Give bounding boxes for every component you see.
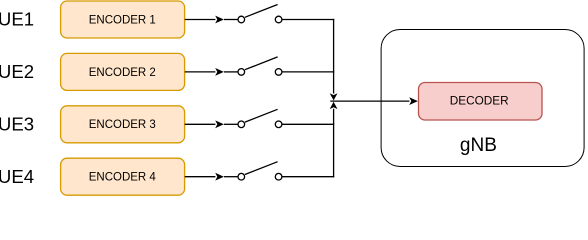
encoder block ENCODER 3 <box>61 106 185 143</box>
svg-text:UE4: UE4 <box>0 166 34 187</box>
svg-text:ENCODER 3: ENCODER 3 <box>89 119 156 131</box>
wire switch S4 to bus <box>282 176 334 178</box>
switch S4 <box>224 162 282 180</box>
gNB enclosure box <box>381 30 584 167</box>
arrowhead bus bottom at junction <box>330 102 338 109</box>
wire switch S1 to bus <box>282 19 334 21</box>
arrowhead encoder1 edge <box>215 16 224 24</box>
bus vertical wire top (S1/S2 to junction) <box>333 19 335 94</box>
arrowhead encoder4 edge <box>215 173 224 181</box>
switch S2 <box>224 57 282 75</box>
arrowhead encoder2 edge <box>215 68 224 76</box>
encoder block ENCODER 2 <box>61 53 185 90</box>
switch S1 <box>224 5 282 23</box>
arrowhead junction to decoder <box>409 97 418 105</box>
bus vertical wire bottom (S3/S4 to junction) <box>333 109 335 178</box>
wire junction to decoder <box>330 100 409 102</box>
svg-text:UE2: UE2 <box>0 61 34 82</box>
wire encoder3 to switch S3 <box>185 123 216 125</box>
svg-text:gNB: gNB <box>460 135 497 156</box>
svg-text:ENCODER 1: ENCODER 1 <box>89 14 156 26</box>
svg-text:UE3: UE3 <box>0 114 34 135</box>
svg-text:ENCODER 2: ENCODER 2 <box>89 67 156 79</box>
svg-text:ENCODER 4: ENCODER 4 <box>89 172 157 184</box>
wire encoder1 to switch S1 <box>185 19 216 21</box>
svg-text:DECODER: DECODER <box>450 94 509 108</box>
wire switch S3 to bus <box>282 123 334 125</box>
decoder block DECODER <box>419 83 543 121</box>
arrowhead bus top at junction <box>330 93 338 100</box>
wire encoder4 to switch S4 <box>185 176 216 178</box>
svg-text:UE1: UE1 <box>0 9 34 30</box>
encoder block ENCODER 4 <box>61 158 185 195</box>
wire switch S2 to bus <box>282 71 334 73</box>
switch S3 <box>224 109 282 127</box>
arrowhead encoder3 edge <box>215 120 224 128</box>
wire encoder2 to switch S2 <box>185 71 216 73</box>
encoder block ENCODER 1 <box>61 1 185 38</box>
